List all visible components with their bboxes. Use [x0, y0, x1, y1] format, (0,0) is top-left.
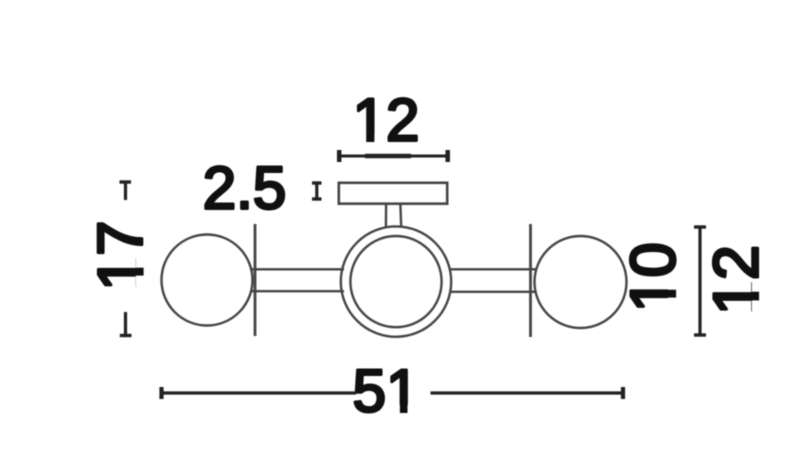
left sphere	[162, 235, 253, 326]
left hanger line	[254, 224, 257, 336]
dimension line for 17 (left)	[120, 182, 132, 336]
canopy plate	[339, 183, 447, 204]
dimension line for 51 (bottom)	[160, 387, 625, 399]
central ring outer	[341, 226, 451, 336]
central ring inner	[350, 236, 441, 327]
dimension line for 12 (top)	[337, 150, 450, 162]
svg-text:12: 12	[353, 87, 420, 154]
right arm tube	[450, 269, 536, 292]
svg-text:2.5: 2.5	[203, 155, 286, 222]
left arm tube	[251, 269, 344, 291]
stem	[386, 205, 401, 228]
dimension tick (I-beam) for 2.5	[312, 183, 322, 199]
right sphere	[535, 236, 627, 328]
right hanger line	[529, 224, 532, 337]
svg-text:51: 51	[353, 358, 420, 425]
dimension line for 12 (right)	[694, 227, 706, 335]
